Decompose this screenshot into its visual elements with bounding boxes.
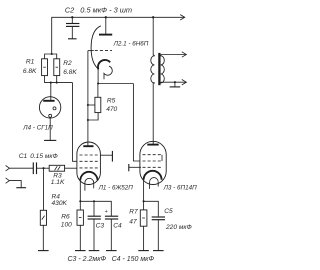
resistor R1 (42, 59, 48, 76)
wire input (9, 167, 33, 169)
ground transformer secondary (170, 81, 181, 87)
cathode of L3 (144, 171, 162, 202)
wire cathode node of L2.1 (97, 82, 133, 84)
label R3 (51, 173, 65, 186)
svg-text:R6: R6 (61, 213, 70, 220)
svg-text:1.1K: 1.1K (51, 179, 65, 186)
grid g3 of L3 (143, 154, 163, 156)
svg-text:Л4 - СГ1П: Л4 - СГ1П (22, 125, 53, 132)
ground R4 (38, 250, 49, 252)
wire R1R2 bottom node (45, 76, 73, 84)
grid g1 of L3 (143, 160, 163, 162)
svg-text:C5: C5 (164, 208, 173, 215)
label R1 (23, 58, 37, 75)
svg-text:C4 - 150 мкФ: C4 - 150 мкФ (112, 256, 155, 263)
svg-text:C4: C4 (113, 222, 122, 229)
svg-text:R5: R5 (107, 97, 116, 104)
resistor R5 (88, 84, 101, 121)
svg-text:Л2.1 - 6Н6П: Л2.1 - 6Н6П (113, 40, 149, 47)
op: anode of L2.1 (99, 16, 112, 34)
label L3 (163, 184, 197, 191)
resistor R6 (75, 201, 86, 250)
wire L2.1 cathode to L3 grid (133, 84, 140, 162)
label R7 (129, 209, 138, 226)
capacitor C1 (33, 162, 49, 174)
input terminal 2 (6, 178, 10, 183)
svg-text:47: 47 (129, 218, 137, 225)
resistor R3 (49, 165, 77, 171)
label C3 (96, 222, 105, 229)
transformer core (158, 53, 160, 85)
svg-text:Л3 - 6П14П: Л3 - 6П14П (163, 184, 197, 191)
grid of L2.1 (88, 50, 112, 52)
svg-text:0.5 мкФ - 3 шт: 0.5 мкФ - 3 шт (80, 6, 132, 15)
svg-text:R2: R2 (63, 60, 72, 67)
capacitor C5 (152, 217, 165, 251)
svg-text:+: + (105, 209, 109, 215)
capacitor C3 (88, 216, 101, 250)
svg-text:C3 - 2.2мкФ: C3 - 2.2мкФ (68, 256, 107, 263)
svg-text:220 мкФ: 220 мкФ (165, 224, 192, 231)
wire screen feed down right of L4 (73, 83, 77, 162)
tube L4 SG1P (39, 83, 60, 141)
resistor R2 (54, 59, 60, 76)
grid g2 of L3 (129, 164, 162, 171)
svg-text:470: 470 (106, 106, 117, 113)
wire coupling grid line (L2.1 grid to L1 anode) (87, 51, 89, 147)
label C1 (19, 153, 58, 160)
tube L1 6Zh52P envelope (77, 142, 101, 185)
label R2 (63, 60, 77, 76)
ground input stub (9, 181, 26, 188)
label R6 (61, 213, 72, 228)
transformer primary (151, 16, 155, 144)
svg-text:6.8K: 6.8K (63, 69, 77, 76)
capacitor C2 (66, 16, 79, 39)
svg-text:430K: 430K (52, 200, 68, 207)
svg-text:R7: R7 (129, 209, 138, 216)
anode of L1 (83, 145, 93, 147)
wire top B+ rail (52, 17, 185, 54)
svg-text:6.8K: 6.8K (23, 68, 37, 75)
label L1 (98, 184, 134, 191)
wire R1R2 top tee (45, 53, 57, 59)
resistor R7 (138, 201, 149, 250)
label L4 (22, 125, 53, 132)
label L2.1 (113, 40, 149, 47)
label C2 value (65, 6, 132, 15)
label C5 (164, 208, 191, 231)
label C4 (113, 222, 122, 229)
wire L1 cathode node (79, 200, 111, 216)
label bottom C4 value (112, 256, 155, 263)
grid g1 of L1 (80, 167, 98, 169)
transformer secondary (161, 52, 187, 85)
resistor R4 (40, 168, 46, 250)
svg-text:100: 100 (61, 221, 72, 228)
svg-text:C3: C3 (96, 222, 105, 229)
label R5 (106, 97, 117, 113)
svg-text:C1: C1 (19, 153, 28, 160)
tube U2.1 triode envelope (91, 26, 101, 69)
cathode of L1 (80, 172, 97, 201)
svg-text:0.15 мкФ: 0.15 мкФ (30, 153, 58, 160)
grid g2 of L1 (80, 160, 98, 162)
node rail arrow (180, 15, 185, 20)
svg-text:C2: C2 (65, 6, 74, 15)
svg-text:Л1 - 6Ж52П: Л1 - 6Ж52П (98, 184, 134, 191)
label bottom C3 value (68, 256, 107, 263)
tube L3 6P14P envelope (140, 141, 166, 184)
input terminal 1 (6, 166, 10, 171)
capacitor C4 (105, 209, 119, 251)
svg-text:R1: R1 (26, 58, 35, 65)
cathode of L2.1 (98, 60, 112, 84)
anode of L3 (147, 144, 158, 146)
grid g3 of L1 (80, 151, 113, 162)
label R4 (52, 194, 68, 208)
wire L3 cathode node (143, 200, 159, 216)
